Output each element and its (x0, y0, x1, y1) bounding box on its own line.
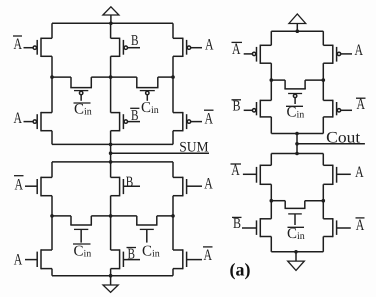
label A-bar (N1) (14, 176, 24, 194)
wire right column upper (SUM) (172, 23, 174, 38)
wire left column upper (SUM) (51, 23, 53, 38)
label Cout (326, 130, 361, 147)
transistor P7 (gate B-bar) (111, 112, 140, 131)
transistor N13 (gate A-bar) (323, 218, 351, 237)
label B (N2) (126, 174, 134, 190)
transistor N10 (gate A) (323, 165, 351, 185)
svg-text:A: A (14, 36, 23, 53)
svg-text:A: A (356, 217, 365, 234)
svg-text:A: A (14, 110, 23, 127)
wire VDD rail (SUM block) (52, 22, 173, 24)
label B (P2) (131, 33, 139, 49)
label B-bar (N12) (232, 216, 242, 232)
node Cout output wire (297, 143, 365, 145)
junction node1 right (Cout) (322, 78, 326, 82)
junction SUM node (109, 151, 113, 155)
label A-bar (N13) (356, 217, 365, 234)
transistor N3 (gate A) (173, 177, 202, 197)
junction node2 left (50, 214, 54, 218)
wire right column lower (SUM) (172, 162, 174, 178)
transistor N6 (gate A) (25, 249, 52, 269)
transistor P3 (gate A) (173, 38, 202, 57)
transistor P10 (gate A) (323, 45, 352, 64)
wire left column upper (Cout) (270, 31, 272, 45)
junction node1 center (109, 75, 113, 79)
transistor P13 (gate A-bar) (323, 100, 352, 118)
wire center column upper (SUM) (110, 23, 112, 38)
wire center column to SUM node (110, 144, 112, 162)
transistor N1 (gate A-bar) (25, 177, 52, 197)
wire NMOS bottom rail (Cout) (271, 251, 323, 253)
svg-text:B: B (126, 174, 134, 190)
transistor P1 (gate A-bar) (24, 38, 53, 57)
label A (P3) (205, 37, 214, 54)
svg-text:A: A (357, 96, 366, 113)
transistor P8 (gate A-bar) (173, 112, 202, 131)
label A-bar (N9) (231, 162, 242, 179)
transistor P5 (gate Cin, bridge) (136, 77, 158, 101)
wire left column lower (Cout) (270, 154, 272, 166)
svg-text:A: A (205, 110, 214, 127)
transistor N4 (gate Cin-bar, bridge) (70, 216, 92, 243)
wire center stem to Cout node (296, 134, 298, 154)
wire NMOS bottom rail (SUM) (52, 275, 173, 277)
transistor N11 (gate Cin-bar, bridge) (285, 201, 306, 225)
label Cin (N5) (142, 244, 160, 260)
junction Cout node (295, 142, 299, 146)
label A-bar (N8) (203, 247, 213, 264)
junction node1 right (171, 75, 175, 79)
svg-text:A: A (204, 247, 213, 264)
junction node1 left (50, 75, 54, 79)
wire center column lower (SUM) (110, 162, 112, 178)
transistor N12 (gate B-bar) (242, 218, 271, 237)
junction rail/stem (Cout) (295, 132, 299, 136)
junction rail/column center (109, 143, 113, 147)
node SUM output wire (111, 152, 209, 154)
label Cin-bar (P11) (286, 105, 304, 121)
label A-bar (P1) (13, 36, 22, 53)
svg-text:A: A (14, 251, 23, 268)
svg-text:B: B (128, 247, 136, 263)
transistor P6 (gate A) (24, 112, 53, 131)
transistor P12 (gate B-bar) (244, 100, 272, 118)
label A (N6) (14, 251, 23, 268)
junction rail2/stem (Cout) (295, 152, 299, 156)
junction node1 left (Cout) (270, 78, 274, 82)
wire PMOS bottom rail (SUM) (52, 143, 173, 145)
transistor P2 (gate B) (111, 38, 140, 57)
wire node row 1 (Cout) (271, 79, 285, 81)
svg-text:A: A (204, 176, 213, 193)
junction rail2/column center (109, 160, 113, 164)
svg-text:A: A (231, 162, 240, 179)
transistor N8 (gate A-bar) (173, 249, 202, 269)
svg-text:A: A (205, 37, 214, 54)
svg-text:B: B (233, 98, 241, 114)
wire VDD rail (Cout block) (271, 30, 323, 32)
wire NMOS top rail (Cout) (271, 153, 323, 155)
junction node2 left (Cout) (270, 199, 274, 203)
transistor N2 (gate B) (111, 177, 140, 197)
svg-text:SUM: SUM (179, 140, 208, 156)
transistor P11 (gate Cin-bar, bridge) (284, 80, 305, 104)
power VDD (Cout block) (289, 14, 306, 31)
label A-bar (P13) (356, 96, 366, 113)
svg-text:B: B (233, 216, 241, 232)
transistor P9 (gate A-bar) (244, 45, 272, 64)
svg-text:A: A (355, 164, 364, 181)
label Cin-bar (N11) (287, 226, 305, 242)
label Cin-bar (N4) (73, 244, 91, 260)
wire right column upper (Cout) (322, 31, 324, 45)
junction ground rail center (Cout) (294, 250, 298, 254)
label A (N10) (355, 164, 364, 181)
ground (SUM block) (103, 276, 118, 293)
label Cin-bar (P4) (74, 102, 92, 118)
wire NMOS top rail (SUM) (52, 161, 173, 163)
wire right column lower (Cout) (322, 154, 324, 166)
label A (P6) (14, 110, 23, 127)
junction VDD stem / rail (Cout) (296, 29, 300, 33)
junction VDD stem / rail (109, 22, 113, 26)
wire node row 1 (SUM) (52, 76, 71, 78)
transistor N5 (gate Cin, bridge) (136, 216, 157, 243)
ground (Cout block) (288, 252, 305, 271)
svg-text:A: A (355, 42, 364, 59)
svg-text:A: A (232, 41, 241, 58)
wire PMOS bottom rail (Cout) (271, 133, 323, 135)
svg-text:B: B (131, 33, 139, 49)
wire node row 2 (SUM) (52, 215, 71, 217)
svg-text:A: A (15, 177, 24, 194)
power VDD (SUM block) (103, 7, 119, 24)
svg-text:(a): (a) (230, 260, 251, 280)
junction node2 right (Cout) (322, 199, 326, 203)
transistor P4 (gate Cin-bar, bridge) (70, 77, 92, 101)
transistor N7 (gate B-bar) (111, 249, 140, 269)
svg-text:Cout: Cout (326, 130, 361, 147)
label A-bar (P8) (204, 110, 214, 127)
label B-bar (N7) (127, 247, 137, 263)
label B-bar (P12) (232, 98, 242, 114)
label B-bar (P7) (130, 108, 139, 124)
junction ground rail center (109, 274, 113, 278)
label A (N3) (204, 176, 213, 193)
label Cin (P5) (141, 100, 159, 116)
label A (P10) (355, 42, 364, 59)
wire node row 2 (Cout) (271, 200, 285, 202)
wire left column lower (SUM) (51, 162, 53, 178)
label SUM (179, 140, 208, 156)
junction node2 center (109, 214, 113, 218)
junction node2 right (171, 214, 175, 218)
transistor N9 (gate A-bar) (243, 165, 271, 185)
svg-text:B: B (131, 108, 139, 124)
label A-bar (P9) (232, 41, 243, 58)
